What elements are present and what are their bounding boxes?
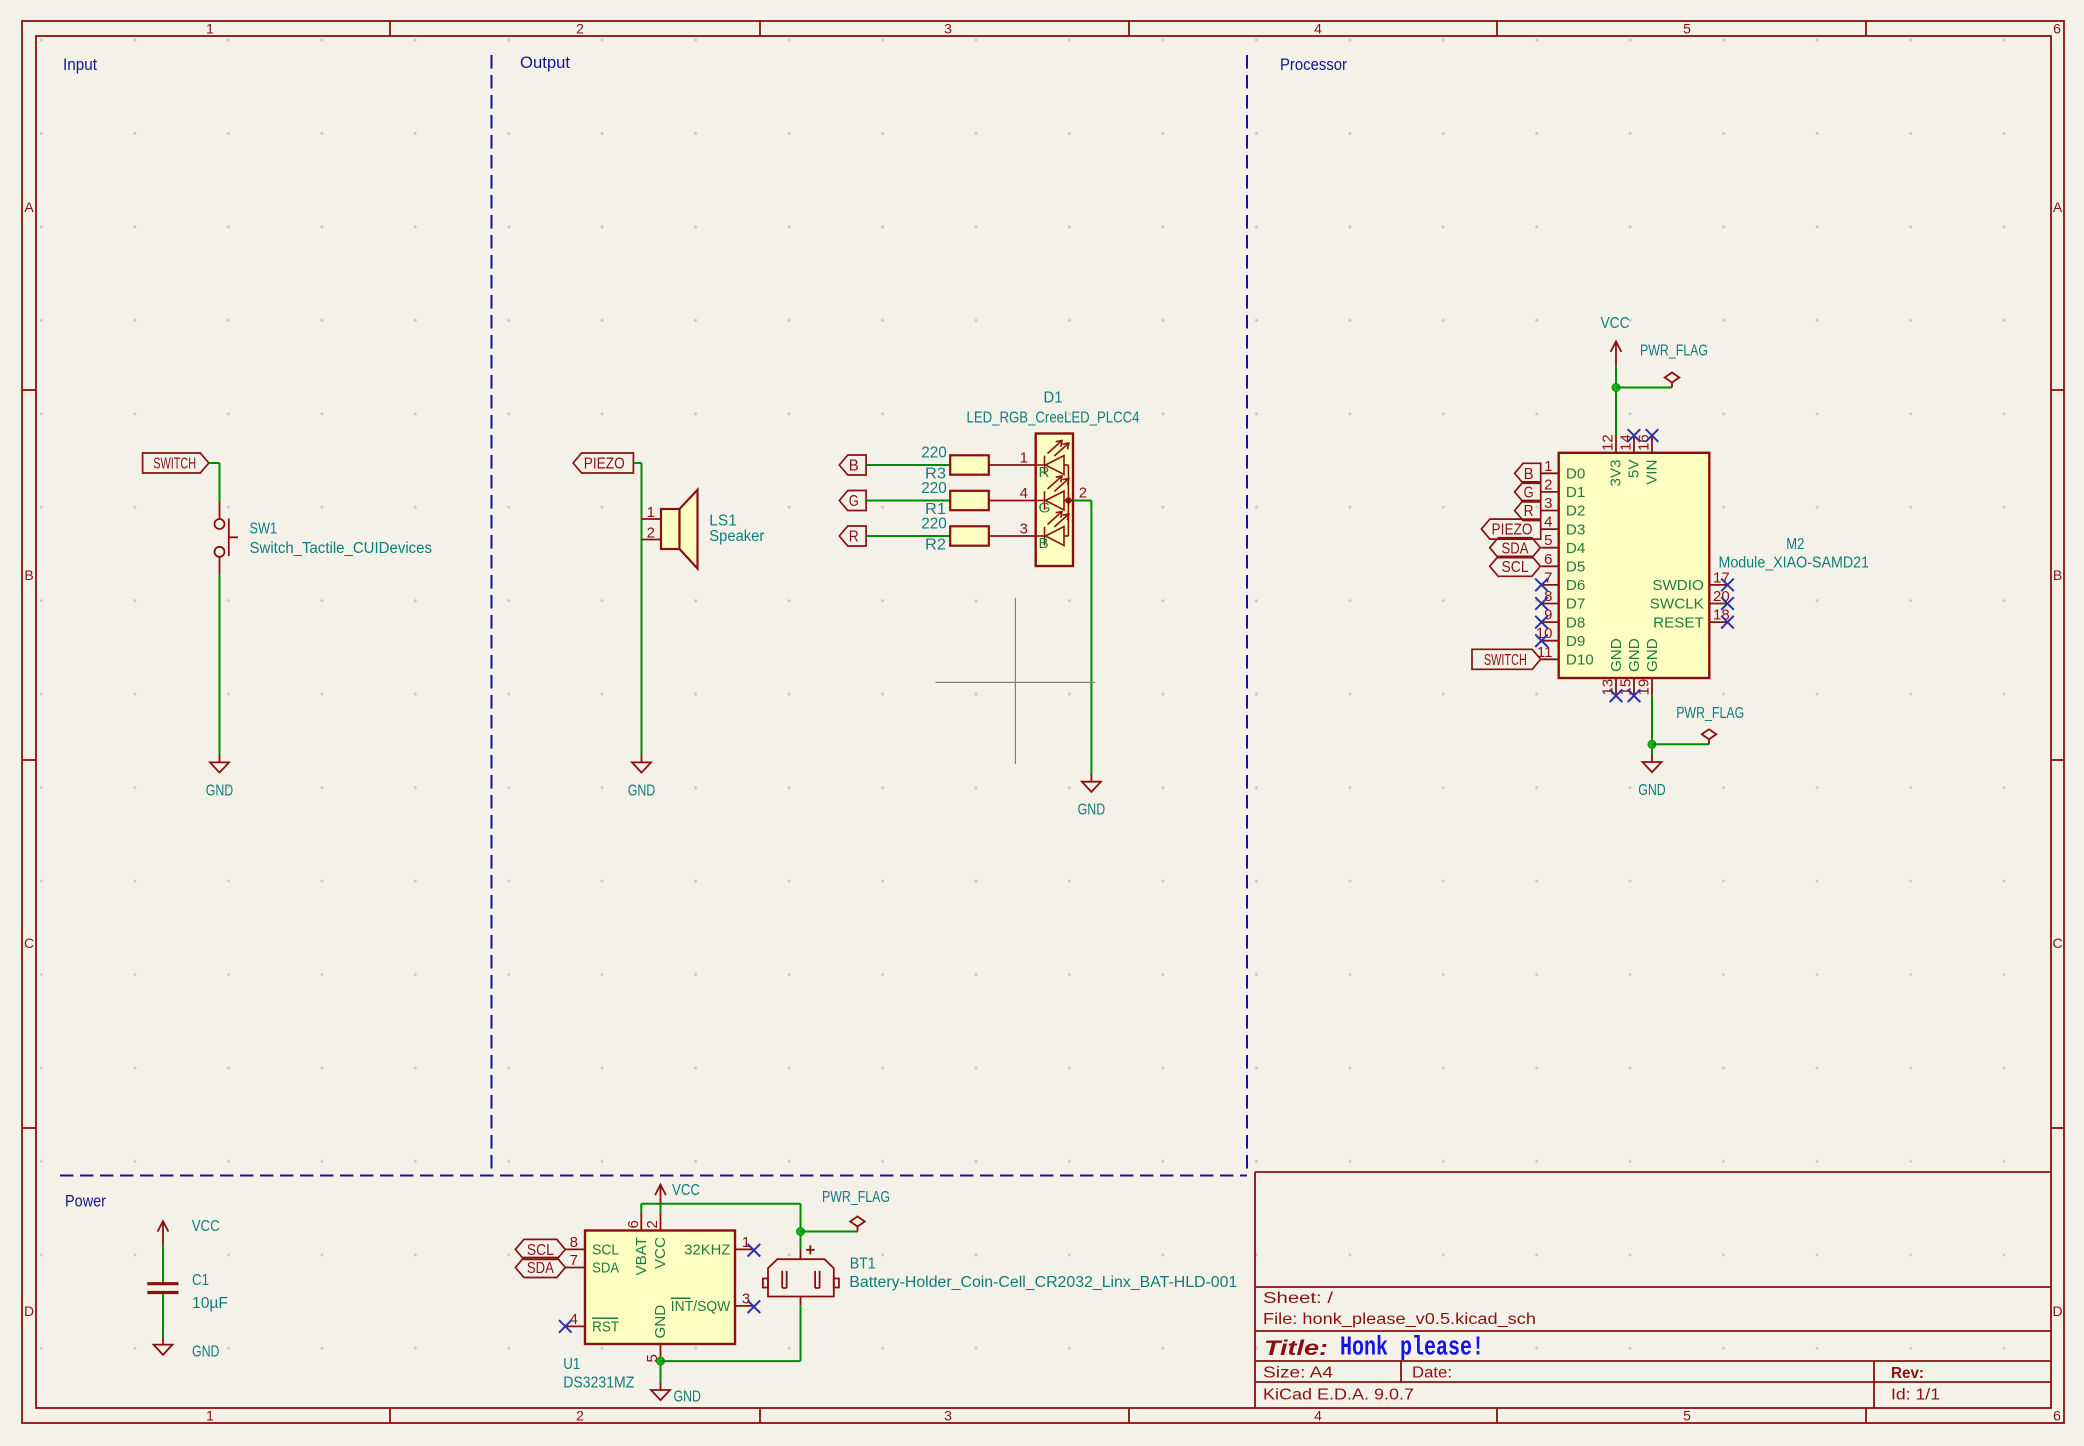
wire — [660, 1361, 662, 1382]
svg-text:VIN: VIN — [1644, 460, 1661, 485]
svg-text:5V: 5V — [1626, 459, 1643, 478]
svg-text:2: 2 — [644, 1220, 661, 1228]
svg-text:D10: D10 — [1566, 652, 1594, 669]
no-connect — [1535, 597, 1548, 610]
pin — [1542, 528, 1559, 530]
svg-text:M2: M2 — [1786, 536, 1804, 553]
svg-text:D0: D0 — [1566, 466, 1585, 483]
hierarchical label SCL — [1490, 556, 1541, 576]
svg-text:D1: D1 — [1566, 484, 1585, 501]
capacitor C1 — [147, 1284, 178, 1293]
hierarchical label B — [1515, 463, 1541, 483]
svg-text:INT/SQW: INT/SQW — [671, 1298, 731, 1315]
svg-text:LED_RGB_CreeLED_PLCC4: LED_RGB_CreeLED_PLCC4 — [967, 410, 1140, 427]
svg-text:GND: GND — [192, 1344, 220, 1361]
svg-text:LS1: LS1 — [709, 512, 737, 529]
power VCC — [158, 1221, 169, 1245]
svg-text:R: R — [849, 529, 859, 546]
svg-text:U1: U1 — [563, 1356, 580, 1373]
wire — [800, 1305, 802, 1361]
svg-text:PIEZO: PIEZO — [584, 456, 625, 473]
svg-text:D9: D9 — [1566, 633, 1585, 650]
svg-text:7: 7 — [1544, 569, 1552, 586]
power flag PWR_FLAG — [1665, 373, 1680, 388]
svg-text:5: 5 — [1683, 21, 1691, 37]
ground — [628, 762, 656, 799]
hierarchical label R — [839, 526, 866, 546]
svg-text:SWCLK: SWCLK — [1650, 596, 1704, 613]
svg-text:3: 3 — [944, 21, 952, 37]
svg-text:GND: GND — [652, 1305, 669, 1339]
pin — [1709, 584, 1727, 586]
wire — [661, 1360, 801, 1362]
svg-text:D1: D1 — [1044, 390, 1063, 407]
pin — [1542, 510, 1559, 512]
hierarchical label SWITCH — [1472, 649, 1541, 669]
wire — [219, 463, 221, 502]
svg-text:1: 1 — [206, 21, 214, 37]
svg-text:4: 4 — [1314, 1408, 1322, 1424]
pin — [660, 1213, 662, 1231]
svg-text:G: G — [1524, 485, 1534, 502]
pin — [1542, 584, 1559, 586]
hierarchical label G — [839, 491, 866, 511]
hierarchical label G — [1515, 482, 1541, 502]
wire — [801, 1231, 858, 1233]
svg-text:RESET: RESET — [1653, 614, 1704, 631]
svg-text:DS3231MZ: DS3231MZ — [563, 1375, 634, 1392]
svg-text:PWR_FLAG: PWR_FLAG — [822, 1189, 890, 1206]
svg-text:R2: R2 — [925, 537, 946, 554]
svg-text:File: honk_please_v0.5.kicad_s: File: honk_please_v0.5.kicad_sch — [1263, 1311, 1536, 1328]
ground — [1078, 782, 1106, 819]
wire — [989, 500, 1036, 502]
svg-text:GND: GND — [674, 1389, 702, 1406]
svg-text:6: 6 — [2053, 1408, 2061, 1424]
no-connect — [1535, 634, 1548, 647]
power VCC — [655, 1185, 666, 1204]
wire — [219, 573, 221, 755]
pin — [1542, 547, 1559, 549]
svg-text:GND: GND — [1644, 638, 1661, 672]
power VCC — [1611, 341, 1622, 365]
svg-text:Speaker: Speaker — [709, 528, 764, 545]
power flag PWR_FLAG — [850, 1217, 865, 1232]
wire — [1652, 743, 1709, 745]
pin — [1542, 472, 1559, 474]
svg-text:D8: D8 — [1566, 614, 1585, 631]
svg-text:D: D — [24, 1303, 34, 1319]
svg-text:1: 1 — [647, 504, 655, 521]
switch SW1 — [215, 502, 239, 573]
pin — [735, 1305, 753, 1307]
svg-text:PWR_FLAG: PWR_FLAG — [1676, 705, 1744, 722]
svg-text:Honk please!: Honk please! — [1340, 1334, 1484, 1364]
svg-text:PWR_FLAG: PWR_FLAG — [1640, 343, 1708, 360]
svg-text:Processor: Processor — [1280, 56, 1347, 74]
svg-text:B: B — [24, 567, 33, 583]
junction — [1648, 740, 1656, 748]
svg-text:220: 220 — [921, 445, 947, 462]
svg-text:6: 6 — [1544, 551, 1552, 568]
svg-text:3: 3 — [944, 1408, 952, 1424]
svg-text:GND: GND — [628, 782, 656, 799]
svg-text:Sheet: /: Sheet: / — [1263, 1290, 1334, 1307]
svg-text:C: C — [24, 935, 34, 951]
svg-text:GND: GND — [1608, 638, 1625, 672]
wire — [660, 1204, 662, 1213]
pin — [1542, 621, 1559, 623]
RTC U1 — [585, 1231, 735, 1345]
pin — [1633, 678, 1635, 696]
wire — [1616, 387, 1672, 389]
svg-text:D4: D4 — [1566, 540, 1585, 557]
hierarchical label SCL — [515, 1239, 565, 1259]
svg-text:4: 4 — [1314, 21, 1322, 37]
svg-text:Module_XIAO-SAMD21: Module_XIAO-SAMD21 — [1719, 555, 1870, 572]
svg-text:SCL: SCL — [1502, 559, 1529, 576]
no-connect — [1721, 616, 1734, 629]
wire — [641, 463, 643, 754]
svg-text:A: A — [2053, 199, 2063, 215]
no-connect — [1721, 597, 1734, 610]
wire — [209, 462, 220, 464]
svg-text:B: B — [849, 458, 859, 475]
svg-text:SW1: SW1 — [250, 521, 278, 538]
svg-text:D6: D6 — [1566, 577, 1585, 594]
pin — [1542, 491, 1559, 493]
svg-text:D2: D2 — [1566, 503, 1585, 520]
svg-text:VBAT: VBAT — [633, 1237, 650, 1276]
svg-text:10: 10 — [1536, 625, 1553, 642]
no-connect — [748, 1300, 761, 1313]
svg-text:7: 7 — [570, 1252, 578, 1269]
resistor R1 — [950, 491, 989, 510]
hierarchical label B — [839, 455, 866, 475]
svg-text:B: B — [2053, 567, 2062, 583]
hierarchical label SDA — [1490, 538, 1541, 558]
svg-text:32KHZ: 32KHZ — [684, 1242, 730, 1259]
wire — [800, 1204, 802, 1250]
no-connect — [1721, 579, 1734, 592]
svg-text:C1: C1 — [192, 1272, 209, 1289]
svg-text:GND: GND — [1638, 782, 1666, 799]
no-connect — [748, 1244, 761, 1257]
svg-text:8: 8 — [570, 1234, 578, 1251]
junction — [657, 1357, 665, 1365]
svg-text:SDA: SDA — [527, 1260, 555, 1277]
svg-text:Id: 1/1: Id: 1/1 — [1891, 1387, 1940, 1404]
svg-text:Input: Input — [63, 56, 97, 74]
svg-text:6: 6 — [625, 1220, 642, 1228]
svg-text:Rev:: Rev: — [1891, 1365, 1924, 1382]
svg-text:VCC: VCC — [672, 1182, 700, 1199]
svg-text:3: 3 — [742, 1290, 750, 1307]
ground — [651, 1390, 670, 1400]
resistor R3 — [950, 455, 989, 474]
pin — [1709, 621, 1727, 623]
wire — [866, 500, 950, 502]
ground — [206, 762, 234, 799]
svg-text:3: 3 — [1020, 521, 1028, 538]
svg-text:GND: GND — [1078, 802, 1106, 819]
power flag PWR_FLAG — [1702, 729, 1717, 744]
speaker LS1 — [642, 490, 698, 569]
svg-text:VCC: VCC — [652, 1237, 669, 1269]
wire — [1073, 500, 1091, 502]
svg-text:KiCad E.D.A. 9.0.7: KiCad E.D.A. 9.0.7 — [1263, 1387, 1414, 1404]
pin — [565, 1248, 585, 1250]
svg-text:Output: Output — [520, 54, 570, 72]
svg-text:10µF: 10µF — [192, 1295, 228, 1312]
svg-text:4: 4 — [1020, 485, 1028, 502]
svg-text:SWDIO: SWDIO — [1652, 577, 1704, 594]
svg-text:Title:: Title: — [1264, 1337, 1328, 1360]
hierarchical label SDA — [515, 1258, 565, 1278]
wire — [1651, 696, 1653, 755]
svg-text:220: 220 — [921, 516, 947, 533]
svg-text:4: 4 — [1544, 514, 1552, 531]
svg-text:2: 2 — [576, 1408, 584, 1424]
hierarchical label SWITCH — [143, 453, 209, 473]
wire — [633, 462, 641, 464]
svg-text:R: R — [1524, 503, 1534, 520]
wire — [866, 535, 950, 537]
svg-text:A: A — [24, 199, 34, 215]
svg-text:3V3: 3V3 — [1608, 460, 1625, 487]
svg-text:2: 2 — [1544, 476, 1552, 493]
junction — [797, 1228, 805, 1236]
svg-text:2: 2 — [1079, 485, 1087, 502]
svg-text:B: B — [1039, 535, 1049, 552]
svg-text:12: 12 — [1600, 434, 1617, 451]
no-connect — [559, 1320, 572, 1333]
svg-text:PIEZO: PIEZO — [1492, 522, 1533, 539]
svg-text:1: 1 — [1544, 458, 1552, 475]
svg-text:4: 4 — [570, 1311, 578, 1328]
pin — [1651, 436, 1653, 453]
svg-text:SWITCH: SWITCH — [153, 456, 196, 473]
ground — [1638, 762, 1666, 799]
svg-text:SDA: SDA — [592, 1260, 620, 1277]
svg-text:Size: A4: Size: A4 — [1263, 1365, 1333, 1382]
wire — [866, 464, 950, 466]
pin — [640, 1213, 642, 1231]
LED D1 — [1036, 434, 1073, 567]
wire — [640, 1204, 642, 1213]
svg-text:D5: D5 — [1566, 559, 1585, 576]
svg-text:B: B — [1524, 466, 1534, 483]
hierarchical label PIEZO — [573, 453, 633, 473]
pin — [1709, 603, 1727, 605]
pin — [1651, 678, 1653, 696]
wire — [989, 464, 1036, 466]
svg-text:1: 1 — [206, 1408, 214, 1424]
svg-text:5: 5 — [1544, 532, 1552, 549]
svg-text:VCC: VCC — [192, 1218, 220, 1235]
svg-text:C: C — [2052, 935, 2062, 951]
svg-text:SCL: SCL — [527, 1242, 554, 1259]
svg-text:Battery-Holder_Coin-Cell_CR203: Battery-Holder_Coin-Cell_CR2032_Linx_BAT… — [849, 1274, 1237, 1291]
svg-text:RST: RST — [592, 1319, 619, 1336]
pin — [565, 1325, 585, 1327]
svg-text:D3: D3 — [1566, 521, 1585, 538]
svg-text:2: 2 — [647, 525, 655, 542]
pin — [735, 1248, 753, 1250]
svg-text:Switch_Tactile_CUIDevices: Switch_Tactile_CUIDevices — [250, 540, 433, 557]
svg-text:GND: GND — [1626, 638, 1643, 672]
svg-text:3: 3 — [1544, 495, 1552, 512]
pin — [1633, 436, 1635, 453]
wire — [1090, 501, 1092, 775]
svg-text:BT1: BT1 — [850, 1256, 876, 1273]
pin — [565, 1267, 585, 1269]
svg-text:2: 2 — [576, 21, 584, 37]
crosshair — [936, 598, 1096, 764]
pin — [660, 1344, 662, 1361]
svg-text:G: G — [849, 493, 859, 510]
svg-text:R: R — [1039, 464, 1050, 481]
svg-text:D: D — [2052, 1303, 2062, 1319]
svg-text:220: 220 — [921, 480, 947, 497]
no-connect — [1535, 616, 1548, 629]
pin — [1615, 436, 1617, 453]
hierarchical label R — [1515, 501, 1541, 521]
svg-text:5: 5 — [1683, 1408, 1691, 1424]
wire — [162, 1294, 164, 1337]
pin — [1615, 678, 1617, 696]
wire — [162, 1245, 164, 1282]
pin — [1542, 565, 1559, 567]
ground — [154, 1345, 173, 1355]
svg-text:SDA: SDA — [1502, 540, 1530, 557]
svg-text:6: 6 — [2053, 21, 2061, 37]
no-connect — [1535, 579, 1548, 592]
pin — [1542, 603, 1559, 605]
wire — [641, 1203, 800, 1205]
module M2 — [1559, 453, 1710, 678]
svg-text:VCC: VCC — [1601, 315, 1630, 332]
svg-text:D7: D7 — [1566, 596, 1585, 613]
wire — [989, 535, 1036, 537]
hierarchical label PIEZO — [1481, 519, 1540, 539]
svg-text:G: G — [1039, 500, 1051, 517]
svg-text:Power: Power — [65, 1193, 106, 1211]
svg-text:1: 1 — [1020, 450, 1028, 467]
svg-text:GND: GND — [206, 782, 234, 799]
svg-text:SCL: SCL — [592, 1242, 619, 1259]
svg-text:SWITCH: SWITCH — [1484, 652, 1527, 669]
pin — [1542, 640, 1559, 642]
svg-text:1: 1 — [742, 1234, 750, 1251]
svg-text:Date:: Date: — [1412, 1365, 1452, 1382]
pin — [1542, 658, 1559, 660]
wire — [1615, 365, 1617, 435]
battery BT1 — [763, 1245, 839, 1305]
junction — [1612, 384, 1620, 392]
resistor R2 — [950, 526, 989, 545]
